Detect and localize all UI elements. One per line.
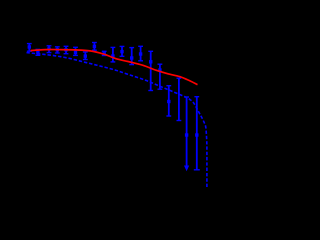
data point 10 error bar [111, 47, 116, 62]
data point 8 error bar [92, 43, 97, 51]
data point 17 error bar [177, 78, 182, 120]
data point 9 error bar [102, 51, 107, 55]
red fit curve [31, 50, 198, 85]
data point 1 error bar [27, 44, 32, 52]
data point 3 error bar [47, 46, 52, 53]
data point 7 error bar [83, 52, 88, 60]
data point 4 error bar [55, 47, 60, 53]
dashed blue theory curve [27, 53, 207, 187]
data point 14 error bar [148, 51, 153, 90]
data point 5 error bar [64, 46, 69, 53]
data point 11 error bar [120, 46, 125, 56]
data point 13 error bar [138, 46, 143, 61]
data point 6 error bar [73, 47, 78, 55]
data point 2 error bar [36, 49, 41, 55]
data point 18 error bar [184, 97, 189, 171]
data point 19 error bar [194, 97, 200, 170]
data point 16 error bar [166, 86, 171, 116]
data point 15 error bar [158, 64, 163, 89]
data point 12 error bar [129, 48, 134, 65]
